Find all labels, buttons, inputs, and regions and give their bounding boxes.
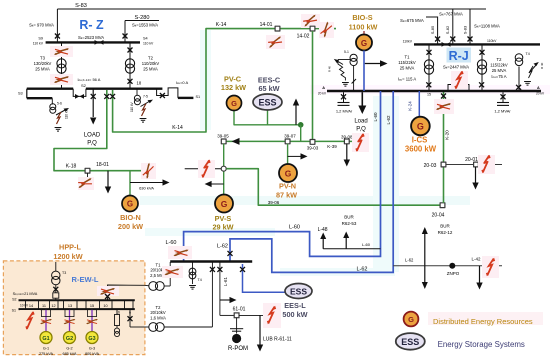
svg-text:39-03: 39-03 bbox=[307, 146, 319, 151]
svg-text:Sk=767 MVA: Sk=767 MVA bbox=[439, 12, 463, 17]
arrow right on L-61 bbox=[220, 299, 231, 301]
svg-text:7-5: 7-5 bbox=[143, 95, 148, 99]
bolt to ground 7-5 bbox=[142, 104, 147, 117]
svg-text:R-POM: R-POM bbox=[228, 346, 248, 352]
svg-text:G: G bbox=[221, 199, 228, 209]
arrow 630 kVA bbox=[130, 182, 164, 184]
svg-text:R-J: R-J bbox=[449, 49, 469, 63]
node 39-03 bbox=[310, 140, 315, 145]
fault bolt right of 20-01 bbox=[478, 155, 495, 174]
svg-text:Load: Load bbox=[354, 119, 367, 125]
svg-text:G-2: G-2 bbox=[66, 347, 72, 351]
breaker K-20 bbox=[441, 94, 446, 99]
fuse box T3 HPP bbox=[53, 293, 59, 298]
svg-text:G-1: G-1 bbox=[43, 347, 49, 351]
feeder L-61 bbox=[219, 262, 221, 315]
transformer T2 bbox=[125, 59, 134, 73]
bus S1 stub bbox=[178, 97, 194, 99]
svg-text:PV-N: PV-N bbox=[279, 182, 296, 191]
svg-text:ESS: ESS bbox=[401, 337, 419, 347]
fault bolt on K-20 bbox=[434, 99, 454, 114]
svg-text:87 kW: 87 kW bbox=[276, 191, 297, 200]
generator feeder G3 bbox=[91, 309, 93, 331]
svg-text:200 kW: 200 kW bbox=[118, 222, 143, 231]
wire S-83 drop right bbox=[469, 9, 471, 44]
transformer T4 R-J bbox=[518, 67, 520, 92]
svg-text:T1: T1 bbox=[156, 262, 162, 267]
svg-text:14-02: 14-02 bbox=[297, 34, 310, 40]
svg-text:1100 kW: 1100 kW bbox=[349, 23, 378, 32]
svg-text:L-61: L-61 bbox=[223, 277, 228, 287]
svg-text:R 40: R 40 bbox=[328, 66, 332, 72]
svg-text:14: 14 bbox=[29, 304, 33, 308]
svg-text:18-01: 18-01 bbox=[96, 162, 109, 168]
svg-text:R- Z: R- Z bbox=[79, 18, 104, 32]
junction circle below 39-05 bbox=[221, 166, 226, 171]
svg-text:T1: T1 bbox=[405, 55, 411, 60]
sectionalizer S2 bridge bbox=[73, 89, 86, 97]
svg-text:Sk=1108 MVA: Sk=1108 MVA bbox=[474, 24, 500, 29]
svg-text:S1: S1 bbox=[12, 309, 16, 313]
svg-text:S-85: S-85 bbox=[430, 25, 435, 34]
svg-text:110kV: 110kV bbox=[403, 40, 413, 44]
svg-text:L-42: L-42 bbox=[471, 256, 481, 261]
svg-text:39-08: 39-08 bbox=[341, 134, 353, 139]
svg-text:G: G bbox=[361, 39, 367, 48]
wire S-280 stub bbox=[125, 20, 159, 22]
svg-text:65 kW: 65 kW bbox=[258, 84, 279, 93]
svg-text:G: G bbox=[417, 122, 424, 132]
generator G PV-S bbox=[215, 195, 233, 213]
svg-text:20 kV: 20 kV bbox=[536, 92, 545, 96]
svg-text:110 kV: 110 kV bbox=[65, 108, 69, 119]
svg-text:110/20kV: 110/20kV bbox=[142, 61, 160, 66]
bolt stub below 18-01 bbox=[87, 173, 89, 190]
svg-text:ESS: ESS bbox=[290, 287, 307, 297]
feeder K-14 wire loop bbox=[113, 29, 336, 132]
svg-text:25 MVA: 25 MVA bbox=[492, 68, 507, 73]
wire S-82 drop bbox=[452, 9, 454, 44]
svg-text:1,6 MVA: 1,6 MVA bbox=[150, 315, 166, 320]
svg-text:13: 13 bbox=[68, 304, 72, 308]
node 18-01 bbox=[85, 168, 90, 173]
svg-text:LOAD: LOAD bbox=[84, 133, 101, 139]
svg-text:15: 15 bbox=[90, 304, 94, 308]
transformer T2 feeder wire bbox=[129, 42, 131, 88]
svg-text:L-60: L-60 bbox=[289, 225, 300, 231]
bus S3 lower section bbox=[26, 89, 28, 99]
arrow diag 7-5 bbox=[141, 101, 151, 107]
bus R-J 110kV bbox=[414, 43, 540, 45]
breaker below T2 bbox=[128, 79, 133, 84]
arrow down right of ZNPO bbox=[479, 266, 481, 283]
resistor 5-1 to ground bbox=[338, 60, 345, 81]
svg-text:ESS: ESS bbox=[258, 98, 276, 108]
svg-text:Icu,K-14= 56 A: Icu,K-14= 56 A bbox=[78, 77, 101, 82]
svg-text:S9: S9 bbox=[38, 37, 43, 41]
svg-text:Sk=2447 MVA: Sk=2447 MVA bbox=[443, 65, 469, 70]
svg-text:110 kV: 110 kV bbox=[130, 101, 134, 112]
cell 16 fuse and transformer bbox=[116, 309, 118, 328]
station label R-J bbox=[447, 48, 472, 63]
wire S-280 drop bbox=[124, 21, 126, 43]
svg-text:S-83: S-83 bbox=[75, 3, 87, 9]
wire dot to K-39 bbox=[300, 125, 302, 142]
transformer T2 R-J bbox=[477, 60, 486, 74]
svg-text:20 kV: 20 kV bbox=[318, 92, 327, 96]
transformer T4 HPP bbox=[192, 262, 194, 284]
junction dot ZNPO bbox=[449, 263, 455, 269]
wire 14-02 down to 39-03 bbox=[312, 31, 314, 142]
svg-text:25 MVA: 25 MVA bbox=[400, 66, 415, 71]
breaker on L-62 drop bbox=[228, 251, 233, 256]
svg-text:20/10kV: 20/10kV bbox=[150, 310, 166, 315]
fault bolt right of 39-08 bbox=[352, 133, 369, 152]
generator feeder G2 bbox=[69, 309, 71, 331]
svg-text:14-01: 14-01 bbox=[260, 22, 273, 28]
svg-text:110 kV: 110 kV bbox=[143, 42, 154, 46]
wire EES-C drop bbox=[267, 110, 269, 125]
svg-text:685 kVA: 685 kVA bbox=[62, 352, 77, 356]
svg-text:115/22kV: 115/22kV bbox=[398, 60, 416, 65]
fault bolt on ZNPO end bbox=[482, 256, 499, 278]
node 20-01 bbox=[474, 162, 479, 167]
svg-text:LUB R-61-11: LUB R-61-11 bbox=[263, 337, 292, 343]
load feeder breaker bbox=[91, 94, 96, 99]
grid link from cell 10 bbox=[108, 285, 145, 300]
storage ESS EES-C bbox=[253, 94, 282, 110]
svg-text:T4: T4 bbox=[526, 52, 530, 56]
svg-text:R 40: R 40 bbox=[540, 62, 544, 69]
svg-text:G: G bbox=[127, 200, 133, 209]
svg-text:S2: S2 bbox=[12, 298, 16, 302]
cell ticks bbox=[26, 300, 134, 309]
riser T2 to 20kV bus bbox=[211, 262, 213, 327]
arrow right near T1 bbox=[365, 63, 381, 65]
fault bolt left below S1 bbox=[29, 309, 31, 316]
arrow up on PV-C feeder bbox=[295, 105, 297, 125]
svg-text:L-62: L-62 bbox=[386, 115, 391, 125]
riser T1 to 20kV bus bbox=[169, 262, 171, 286]
svg-text:T2: T2 bbox=[497, 57, 503, 62]
svg-text:275 kVA: 275 kVA bbox=[39, 352, 54, 356]
feeder K-18 wire bbox=[54, 90, 144, 171]
svg-text:A: A bbox=[537, 86, 540, 90]
svg-text:Icu=75 A: Icu=75 A bbox=[491, 74, 506, 79]
svg-text:25 MVA: 25 MVA bbox=[35, 67, 50, 72]
wire 20-03 to 20-01 bbox=[446, 164, 502, 166]
svg-text:Sk=2523 MVA: Sk=2523 MVA bbox=[78, 35, 104, 40]
svg-text:11: 11 bbox=[42, 304, 46, 308]
node 61-01 bbox=[234, 313, 239, 318]
svg-text:5-6: 5-6 bbox=[57, 102, 62, 106]
svg-text:K-20: K-20 bbox=[445, 130, 450, 140]
svg-text:S1: S1 bbox=[196, 95, 201, 99]
wire spur with bolt bbox=[185, 168, 221, 170]
svg-text:Sk=675 MVA: Sk=675 MVA bbox=[400, 18, 424, 23]
wire L-60 bbox=[184, 91, 381, 261]
generator G PV-N bbox=[279, 164, 297, 182]
R-POM earthing bbox=[236, 318, 238, 334]
svg-text:10 kV: 10 kV bbox=[20, 303, 29, 307]
arrow diag T4 bbox=[529, 65, 537, 74]
breaker K-14 bbox=[110, 94, 115, 99]
node 20-04 bbox=[440, 203, 445, 208]
fault bolt on L-60 drop bbox=[168, 246, 192, 259]
svg-text:39-06: 39-06 bbox=[268, 200, 280, 205]
svg-text:500 kW: 500 kW bbox=[282, 310, 307, 319]
svg-text:Distributed Energy Resources: Distributed Energy Resources bbox=[433, 317, 533, 326]
junction dot PV-C feeder bbox=[298, 122, 304, 128]
svg-text:K-39: K-39 bbox=[327, 144, 337, 149]
svg-text:25 MVA: 25 MVA bbox=[143, 67, 158, 72]
svg-text:T2: T2 bbox=[156, 305, 162, 310]
svg-text:20-03: 20-03 bbox=[424, 163, 437, 169]
svg-text:I-CS: I-CS bbox=[412, 136, 428, 145]
breaker S-85 bbox=[435, 37, 440, 42]
fault bolt above bridge bbox=[451, 71, 468, 89]
svg-text:P,Q: P,Q bbox=[356, 127, 366, 133]
wire ZNPO line bbox=[393, 265, 502, 267]
node 39-05 bbox=[221, 139, 226, 144]
wire S-83 drop to R-Z bus bbox=[56, 9, 58, 42]
svg-text:S-83: S-83 bbox=[462, 25, 467, 34]
fault bolt above T3 bbox=[50, 46, 73, 57]
generator feeder G1 bbox=[45, 309, 47, 331]
svg-text:132 kW: 132 kW bbox=[221, 83, 246, 92]
svg-text:BIO-S: BIO-S bbox=[352, 13, 372, 22]
svg-text:110kV: 110kV bbox=[487, 39, 497, 43]
svg-text:15: 15 bbox=[427, 93, 431, 97]
svg-text:130/20kV: 130/20kV bbox=[34, 61, 52, 66]
svg-text:A: A bbox=[322, 86, 325, 90]
svg-text:T3: T3 bbox=[62, 271, 66, 275]
bus R-Z 110kV bbox=[46, 41, 140, 43]
svg-text:61-01: 61-01 bbox=[233, 306, 246, 312]
svg-text:Sk,min=21 MVA: Sk,min=21 MVA bbox=[13, 292, 38, 296]
svg-text:1,2 MVAr: 1,2 MVAr bbox=[494, 109, 511, 114]
svg-text:Icu= 115 A: Icu= 115 A bbox=[398, 77, 417, 82]
wire K-20 bbox=[443, 90, 445, 203]
load arrow bbox=[90, 118, 96, 125]
wire L-61 to 61-01 bbox=[220, 314, 234, 316]
bus coupler bowtie bbox=[95, 40, 104, 45]
capacitor bank right bbox=[502, 92, 504, 102]
wire K-39 horizontal bbox=[226, 140, 352, 142]
node 14-02 bbox=[310, 26, 315, 31]
svg-text:G1: G1 bbox=[42, 336, 49, 342]
svg-text:G: G bbox=[231, 99, 237, 108]
wire S-85 stub bbox=[426, 17, 438, 44]
arrow left on PV-S tap bbox=[208, 183, 224, 185]
svg-text:Sk= 970 MVA: Sk= 970 MVA bbox=[29, 23, 54, 28]
svg-text:K-14: K-14 bbox=[216, 22, 227, 28]
fault bolt on T1 riser bbox=[162, 266, 183, 278]
breaker on S-280 drop bbox=[123, 34, 128, 39]
arrow BUR R62-53 bbox=[345, 237, 347, 249]
wire 61-01 right bbox=[239, 314, 280, 316]
svg-text:L-60: L-60 bbox=[165, 240, 176, 246]
svg-text:G: G bbox=[408, 315, 414, 324]
fault bolt below T3 bbox=[50, 74, 73, 85]
load arrow below bus A bbox=[361, 92, 363, 106]
svg-text:G2: G2 bbox=[66, 336, 73, 342]
svg-text:L-62: L-62 bbox=[356, 266, 367, 272]
svg-text:G-3: G-3 bbox=[89, 347, 95, 351]
load arrow below 39-08 bbox=[346, 144, 348, 160]
flow arrow left at 39-05 bbox=[232, 138, 240, 145]
generator G I-CS bbox=[411, 117, 430, 136]
fault bolt right of 14-02 bbox=[319, 22, 334, 38]
bus 20kV HPP bbox=[170, 260, 252, 262]
svg-text:K-14: K-14 bbox=[172, 125, 183, 131]
load feeder wire bbox=[92, 89, 94, 117]
fault bolt above 14-02 bbox=[301, 14, 320, 28]
transformer T2 feeder bbox=[481, 44, 483, 91]
node 39-07 bbox=[285, 139, 290, 144]
arrow L-48 bbox=[322, 238, 324, 249]
svg-text:ZNPO: ZNPO bbox=[447, 271, 460, 276]
svg-text:20-01: 20-01 bbox=[465, 157, 478, 163]
transformer T3 bbox=[57, 59, 66, 73]
svg-text:G: G bbox=[285, 168, 292, 178]
breaker on S-83 drop bbox=[55, 34, 60, 39]
bolt on cell 10 link bbox=[97, 286, 119, 296]
svg-text:L-60: L-60 bbox=[373, 112, 378, 122]
svg-text:12: 12 bbox=[51, 304, 55, 308]
svg-text:29 kW: 29 kW bbox=[212, 223, 233, 232]
arrow diag 5-1 bbox=[338, 59, 350, 61]
svg-text:S3: S3 bbox=[18, 92, 23, 96]
svg-text:T3: T3 bbox=[40, 56, 46, 61]
wire BUR spur baseline bbox=[323, 248, 380, 250]
svg-text:T4: T4 bbox=[198, 278, 202, 282]
svg-text:1200 kW: 1200 kW bbox=[53, 252, 82, 261]
breaker below T3 HPP bbox=[55, 285, 57, 301]
transformer T1 R-J bbox=[424, 60, 433, 74]
load arrow below 20-01 bbox=[475, 167, 477, 183]
wire L-62 bbox=[230, 91, 393, 272]
node 14-01 bbox=[275, 26, 280, 31]
breaker above T2 bbox=[128, 48, 133, 53]
breaker T4 to bus bbox=[516, 85, 521, 90]
bus S2 HPP bbox=[19, 299, 135, 301]
svg-text:110 kV: 110 kV bbox=[33, 42, 44, 46]
svg-text:20-04: 20-04 bbox=[432, 213, 445, 219]
fault bolt left of 14-01 bbox=[266, 35, 285, 49]
generator G BIO-N bbox=[122, 196, 138, 212]
bus A 20kV bbox=[327, 90, 541, 92]
svg-text:P,Q: P,Q bbox=[87, 141, 97, 147]
svg-text:BIO-N: BIO-N bbox=[120, 213, 141, 222]
svg-text:HPP-L: HPP-L bbox=[59, 243, 81, 252]
legend ESS symbol bbox=[396, 333, 425, 350]
svg-text:Sk=1553 MVA: Sk=1553 MVA bbox=[132, 23, 158, 28]
svg-text:R62-53: R62-53 bbox=[342, 221, 357, 226]
sectionalizer S1 bridge bbox=[157, 88, 178, 98]
sectionalizer bridge bus A bbox=[448, 85, 469, 92]
arrow right from PV-N tap bbox=[288, 155, 302, 157]
wire PV-C feeder bbox=[234, 111, 301, 125]
transformer 7-5 earthing bbox=[136, 88, 138, 96]
svg-text:S4: S4 bbox=[143, 37, 148, 41]
svg-text:Energy Storage Systems: Energy Storage Systems bbox=[438, 340, 525, 349]
wire EES-L blue bbox=[243, 264, 286, 292]
svg-text:BUR: BUR bbox=[344, 215, 354, 220]
svg-text:L-60: L-60 bbox=[362, 242, 371, 247]
load arrow on K-18 bbox=[107, 171, 109, 187]
arrow diag 5-6 bbox=[56, 110, 66, 116]
svg-text:1,2 MVAr: 1,2 MVAr bbox=[336, 109, 353, 114]
wire BIO-N tap bbox=[129, 171, 131, 196]
cell 9 outgoing bbox=[129, 309, 131, 327]
svg-text:39-05: 39-05 bbox=[217, 133, 229, 138]
node 20-03 bbox=[441, 162, 446, 167]
svg-text:800 kVA: 800 kVA bbox=[85, 352, 100, 356]
svg-text:BUR: BUR bbox=[440, 224, 450, 229]
bus R-Z 20kV section left bbox=[27, 87, 73, 89]
svg-text:T2: T2 bbox=[148, 56, 154, 61]
svg-text:Icu=0 A: Icu=0 A bbox=[176, 80, 189, 85]
svg-text:10: 10 bbox=[103, 304, 107, 308]
svg-text:R62-12: R62-12 bbox=[438, 230, 453, 235]
wire K-24 bbox=[418, 91, 420, 117]
fault bolt on K-18 bbox=[141, 163, 156, 179]
svg-text:R-EW-L: R-EW-L bbox=[72, 275, 99, 284]
wire S-83 tie line top bbox=[57, 8, 486, 10]
wire BIO-S to bus A bbox=[363, 51, 365, 92]
generator G BIO-S bbox=[363, 31, 365, 35]
arrow BUR R62-12 double bbox=[424, 233, 426, 283]
wire 39-06 link bbox=[226, 169, 442, 206]
wire PV-N tap bbox=[287, 144, 289, 164]
svg-text:39-07: 39-07 bbox=[284, 133, 296, 138]
bus S1 HPP bbox=[19, 308, 135, 310]
svg-text:G3: G3 bbox=[88, 336, 95, 342]
svg-text:630 kVA: 630 kVA bbox=[139, 186, 154, 191]
svg-text:K-18: K-18 bbox=[66, 164, 77, 170]
bus coupler bowtie R-J bbox=[442, 42, 451, 47]
svg-text:S2: S2 bbox=[81, 83, 87, 88]
svg-text:K-24: K-24 bbox=[407, 101, 412, 111]
legend G symbol bbox=[404, 312, 419, 327]
transformer T1 feeder bbox=[428, 44, 430, 91]
svg-text:5-1: 5-1 bbox=[344, 50, 349, 54]
svg-text:L-62: L-62 bbox=[405, 258, 414, 263]
transformer T3 feeder wire bbox=[61, 42, 63, 88]
node 39-08 bbox=[344, 139, 349, 144]
svg-text:S-82: S-82 bbox=[445, 25, 450, 34]
earthing transformer 5-6 bbox=[51, 98, 53, 104]
storage ESS EES-L bbox=[285, 284, 312, 299]
wire 39-05 down bbox=[223, 144, 225, 194]
svg-text:18: 18 bbox=[137, 81, 142, 86]
breaker K-18 bbox=[104, 94, 109, 99]
svg-text:3600 kW: 3600 kW bbox=[405, 145, 437, 154]
svg-text:EES-L: EES-L bbox=[284, 301, 306, 310]
fault bolt on 61-01 line bbox=[263, 303, 281, 328]
HPP-L dashed box bbox=[3, 261, 145, 355]
transformer T3 HPP bbox=[55, 262, 57, 271]
svg-text:115/22kV: 115/22kV bbox=[490, 63, 508, 68]
svg-text:L-48: L-48 bbox=[318, 227, 328, 233]
svg-text:L-62: L-62 bbox=[217, 244, 228, 250]
generator G PV-C bbox=[227, 96, 242, 111]
load arrow LUB R-61-11 bbox=[259, 315, 261, 345]
bolt to ground 5-6 bbox=[57, 112, 62, 124]
bus R-Z 20kV section mid bbox=[86, 87, 162, 89]
capacitor bank left bbox=[343, 92, 345, 102]
